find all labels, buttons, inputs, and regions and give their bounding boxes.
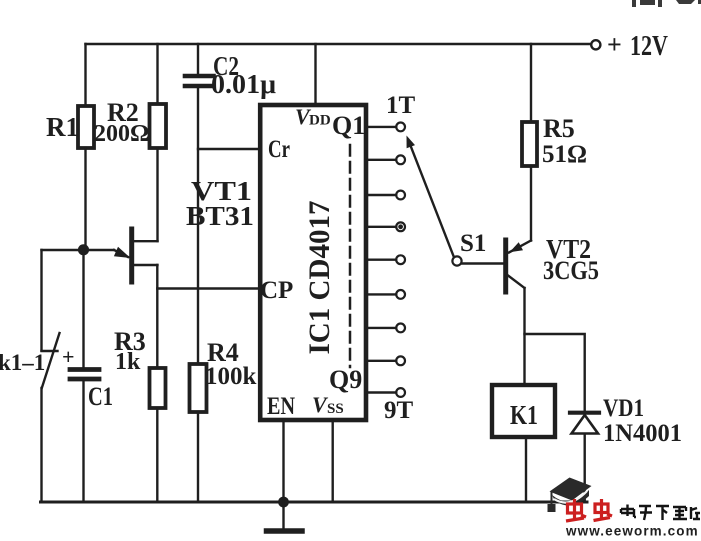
capacitor C1 [82, 250, 84, 367]
svg-text:CP: CP [260, 277, 293, 304]
pin Q9 stub [368, 391, 396, 393]
svg-text:EN: EN [267, 393, 295, 420]
node Q6 contact [396, 290, 405, 299]
svg-text:S1: S1 [460, 230, 486, 257]
pin Q6 stub [368, 293, 396, 295]
pin label VDD [295, 104, 331, 129]
diode VD1 [570, 411, 599, 415]
svg-text:+: + [607, 30, 622, 59]
svg-text:R5: R5 [543, 114, 575, 143]
svg-text:R1: R1 [46, 112, 79, 142]
svg-text:51Ω: 51Ω [542, 141, 587, 168]
node Q9 contact [396, 388, 405, 397]
node Q2 contact [396, 155, 405, 164]
ground [282, 502, 284, 528]
relay K1 [492, 385, 555, 437]
watermark (decorative) [548, 478, 701, 539]
pin Q8 stub [368, 360, 396, 362]
figure number sliver top right (decorative) [632, 0, 701, 7]
pin Q1 stub [368, 126, 396, 128]
svg-text:+: + [62, 344, 75, 369]
node Q1 contact [396, 123, 405, 132]
node S1 wiper [452, 256, 461, 265]
wire S1 to VT2 base [462, 262, 503, 264]
dashed internal line [349, 145, 352, 367]
pin label VSS [312, 392, 344, 417]
svg-text:IC1 CD4017: IC1 CD4017 [304, 200, 336, 354]
wire Cr [198, 148, 259, 150]
svg-text:200Ω: 200Ω [94, 121, 149, 147]
wire emitter [42, 249, 115, 251]
svg-text:9T: 9T [384, 397, 414, 424]
label VD1 1N4001 [603, 395, 682, 447]
svg-text:VD1: VD1 [603, 395, 644, 422]
svg-text:1T: 1T [386, 92, 416, 119]
svg-text:C1: C1 [88, 382, 113, 411]
label C2 0.01u [211, 51, 276, 99]
node A (R1/C1/emitter junction) [78, 244, 89, 255]
pin VSS lead [332, 420, 334, 502]
pin Q5 stub [368, 259, 396, 261]
label VT1 BT31 [186, 176, 254, 231]
svg-text:www.eeworm.com: www.eeworm.com [565, 524, 699, 537]
label R3 1k [114, 327, 146, 375]
node Q8 contact [396, 356, 405, 365]
label R5 51ohm [542, 114, 587, 168]
svg-text:SS: SS [327, 401, 344, 417]
svg-text:k1–1: k1–1 [0, 350, 45, 375]
svg-text:K1: K1 [510, 400, 538, 430]
svg-text:BT31: BT31 [186, 201, 254, 231]
svg-text:12V: 12V [630, 31, 668, 62]
svg-text:1N4001: 1N4001 [603, 420, 682, 447]
node EN/ground junction [278, 497, 289, 508]
resistor R4 [190, 364, 207, 412]
wire B1 to R3/CP [156, 265, 158, 368]
node Q3 contact [396, 191, 405, 200]
svg-text:3CG5: 3CG5 [543, 256, 599, 285]
transistor VT2 (PNP) [503, 240, 508, 292]
node Q7 contact [396, 324, 405, 333]
label VT2 3CG5 [543, 234, 599, 285]
transistor VT1 (UJT) [129, 229, 134, 282]
+12V terminal [591, 40, 600, 49]
wire bottom ground rail [41, 501, 588, 504]
node Q4 contact (filled) [396, 222, 405, 231]
resistor R5 [530, 44, 532, 122]
svg-text:Q9: Q9 [329, 365, 362, 394]
resistor R3 [150, 368, 166, 408]
wire CP [157, 287, 259, 289]
pin Q2 stub [368, 159, 396, 161]
svg-text:1k: 1k [115, 349, 141, 375]
wire top +12V rail [86, 43, 592, 45]
label R4 100k [205, 338, 257, 390]
op-amp U1 : IC1 CD4017 box [260, 105, 366, 420]
resistor R2 [156, 44, 158, 104]
wire collector tee to VD1 [525, 334, 585, 411]
svg-text:DD: DD [309, 113, 331, 129]
pin Q3 stub [368, 194, 396, 196]
wire K1 to ground rail [525, 437, 527, 502]
switch S1 selector arm [410, 143, 454, 257]
wire VDD branch [314, 44, 316, 103]
svg-text:0.01μ: 0.01μ [211, 69, 276, 99]
pin Q4 stub [368, 226, 396, 228]
label +12V [607, 30, 668, 62]
svg-text:Cr: Cr [268, 136, 290, 163]
svg-text:Q1: Q1 [332, 111, 365, 140]
pin Q7 stub [368, 327, 396, 329]
svg-text:100k: 100k [205, 363, 257, 390]
capacitor C2 [197, 44, 199, 74]
node Q5 contact [396, 255, 405, 264]
switch k1-1 [40, 250, 42, 351]
resistor R1 [84, 44, 86, 106]
pin EN lead [282, 420, 284, 502]
label R2 200ohm [94, 98, 149, 147]
